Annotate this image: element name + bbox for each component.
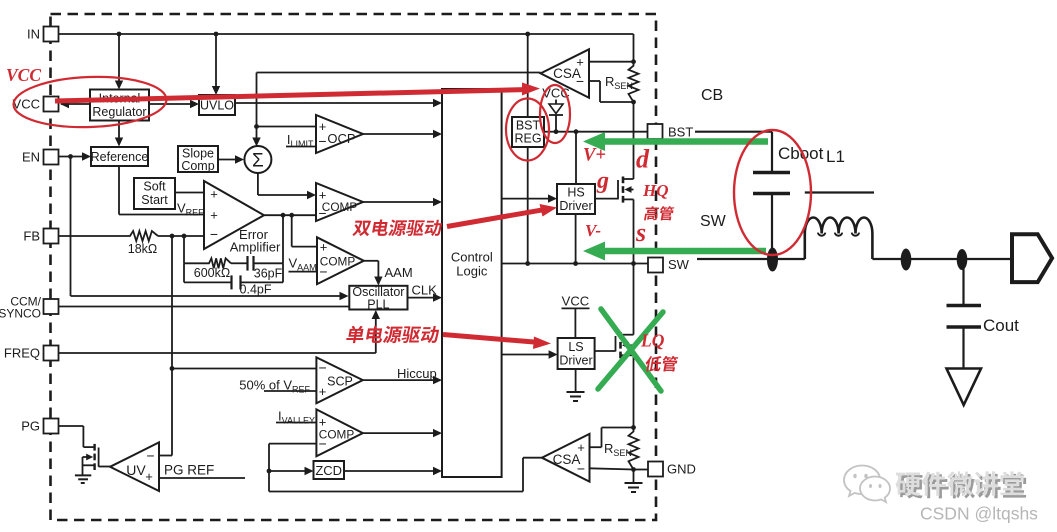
resistor RSEN top sense resistor	[629, 62, 639, 102]
node RSEN bottom resistor bottom	[631, 467, 636, 472]
wire ZCD output to Control Logic with arrow	[344, 470, 440, 472]
svg-text:UV: UV	[126, 462, 146, 478]
svg-text:g: g	[596, 168, 609, 194]
wire EN branch down to Oscillator PLL with arrow	[70, 157, 72, 297]
pin IN	[44, 27, 59, 42]
wire BST REG to diode node	[544, 131, 556, 133]
inductor L1 coil	[805, 217, 873, 259]
resistor RSEN bottom sense resistor	[629, 428, 639, 470]
wire CSA bottom output to ZCD junction	[523, 457, 542, 459]
svg-text:L1: L1	[826, 147, 845, 166]
wire IN to UVLO with arrow	[215, 34, 217, 93]
wire Control Logic to LS Driver with arrow	[502, 354, 556, 356]
svg-text:SW: SW	[668, 257, 690, 272]
node RSEN bottom resistor top	[631, 425, 636, 430]
ground symbol output open triangle	[947, 369, 982, 406]
svg-text:18kΩ: 18kΩ	[128, 242, 158, 256]
svg-text:0.4pF: 0.4pF	[240, 283, 272, 297]
ground symbol below LS driver	[575, 369, 577, 392]
node boot diode to BST line	[554, 129, 559, 134]
svg-text:Regulator: Regulator	[92, 105, 146, 119]
wire Slope Comp to summer with arrow	[218, 159, 242, 161]
block Reference	[91, 147, 148, 166]
wire Cboot bottom to SW node	[771, 194, 773, 253]
wire COMP output to Control Logic with arrow	[363, 201, 440, 203]
op-amp COMP AAM comparator	[317, 237, 364, 284]
wire valley COMP minus from CSA	[269, 443, 316, 445]
block Control Logic	[442, 89, 502, 477]
svg-text:CSDN @ltqshs: CSDN @ltqshs	[920, 504, 1038, 524]
wire V+ into HS driver top	[575, 132, 577, 184]
svg-text:V-: V-	[585, 221, 601, 240]
wire LQ drain up to SW rail	[633, 264, 635, 335]
pin FB	[44, 229, 59, 244]
svg-text:−: −	[577, 461, 585, 477]
diode boot diode	[555, 100, 557, 105]
svg-text:Cboot: Cboot	[778, 144, 824, 163]
capacitor Cout	[947, 304, 982, 308]
ground symbol below RSEN	[633, 470, 635, 484]
svg-text:−: −	[576, 73, 584, 89]
svg-text:+: +	[576, 55, 584, 70]
wire CCM/SYNCO pin to Oscillator PLL	[59, 306, 350, 308]
wire Internal Regulator to VCC pin with arrow	[61, 103, 90, 105]
wire UV output to PG FET gate	[99, 466, 110, 468]
wire 50% of VREF rail into SCP plus	[264, 390, 316, 392]
svg-text:HQ: HQ	[642, 181, 669, 200]
block ZCD	[314, 461, 345, 479]
wire HQ source down to SW rail	[633, 199, 635, 263]
annotation red ellipse around VCC and Internal Regulator	[13, 74, 168, 129]
wire FB pin row with 18k resistor to error amp minus	[59, 235, 128, 237]
svg-text:LS: LS	[568, 340, 583, 354]
wire IVALLEY rail into valley COMP plus	[276, 422, 316, 424]
op-amp OCP comparator	[316, 115, 363, 153]
node SW big junction	[767, 248, 778, 272]
wire CSA plus to RSEN top	[589, 61, 634, 63]
op-amp Error Amplifier	[204, 181, 264, 249]
wire FREQ pin to Oscillator PLL bottom with arrow	[59, 352, 376, 354]
wire PG pin to pull-down FET	[59, 425, 84, 427]
svg-text:Soft: Soft	[143, 180, 166, 194]
annotation red arrow to HS Driver	[447, 210, 543, 227]
annotation red arrow to LS Driver	[443, 335, 537, 343]
svg-text:Cout: Cout	[983, 316, 1019, 335]
wire feedback RC upper branch: 600k + 36pF	[183, 236, 185, 263]
node output junction 2 at Cout	[957, 249, 968, 270]
pin VCC	[44, 97, 59, 112]
op-amp CSA top current sense amplifier	[541, 49, 589, 98]
svg-text:AAM: AAM	[385, 265, 413, 280]
svg-text:+: +	[319, 119, 327, 134]
svg-text:+: +	[319, 384, 327, 399]
wire valley COMP output to Control Logic with arrow	[363, 432, 440, 434]
transistor PG open-drain NMOS	[83, 446, 94, 448]
wire EN pin to Reference with arrow	[59, 156, 90, 158]
wire LS driver gate output	[595, 350, 616, 352]
block HS Driver	[557, 184, 595, 214]
watermark text hardware micro lecture hall	[898, 474, 1026, 499]
svg-text:+: +	[210, 187, 218, 202]
block U-internal-regulator Internal Regulator	[90, 90, 149, 121]
svg-text:SW: SW	[700, 213, 727, 230]
block BST REG	[512, 117, 544, 147]
wire BST REG bottom to SW rail	[527, 147, 529, 264]
svg-text:EN: EN	[22, 150, 40, 165]
pin FREQ	[44, 346, 59, 361]
svg-text:CB: CB	[701, 87, 723, 104]
node on CSA output line to OCP	[254, 124, 259, 129]
svg-text:Start: Start	[141, 193, 168, 207]
op-amp UV power-good comparator	[110, 442, 159, 491]
svg-text:−: −	[146, 448, 154, 464]
ground symbol at PG FET	[75, 474, 91, 476]
svg-text:+: +	[210, 208, 218, 223]
wire Internal Regulator to Reference with arrow	[118, 121, 120, 145]
wire VCC rail to LS driver	[562, 307, 590, 309]
op-amp COMP current comparator	[316, 183, 363, 221]
node RSEN top	[631, 59, 636, 64]
wire SW node to inductor	[773, 258, 805, 260]
wire Cout to ground	[962, 327, 964, 368]
annotation red ellipse around BST REG	[506, 99, 549, 161]
svg-text:GND: GND	[667, 462, 696, 477]
wire LQ source down to RSEN bottom resistor	[633, 355, 635, 427]
wire Internal Regulator to UVLO with arrow	[149, 103, 197, 105]
node error amp output to AAM comp	[289, 213, 294, 218]
node SW rail to power FET leg	[631, 261, 636, 266]
summer sigma circle	[244, 146, 271, 173]
svg-text:d: d	[636, 145, 650, 174]
svg-text:PLL: PLL	[367, 298, 389, 312]
svg-text:36pF: 36pF	[254, 267, 283, 281]
svg-text:VCC: VCC	[6, 65, 41, 85]
svg-text:−: −	[318, 133, 326, 149]
wire CLK from PLL to Control Logic with arrow	[408, 297, 441, 299]
wire SW pin to output node	[697, 258, 768, 260]
wire FB branch to SCP minus	[172, 368, 316, 370]
wire IN rail from IN pin to top-right	[59, 33, 634, 35]
node FB branch to SCP	[170, 366, 175, 371]
wire node to OCP plus input	[257, 126, 317, 128]
svg-text:UVLO: UVLO	[200, 99, 234, 113]
gate plate of PG FET	[98, 448, 100, 467]
svg-text:COMP: COMP	[319, 428, 355, 442]
block Oscillator PLL	[349, 286, 407, 310]
wire Soft Start to error amp	[175, 192, 204, 194]
svg-text:+: +	[145, 469, 153, 484]
annotation green arrow SW	[601, 248, 766, 255]
svg-text:COMP: COMP	[322, 200, 358, 214]
node ZCD input junction	[267, 469, 272, 474]
svg-text:IN: IN	[27, 27, 40, 42]
pin BST	[648, 124, 663, 139]
svg-text:PG REF: PG REF	[164, 463, 214, 478]
node FB to UV comparator	[170, 234, 175, 239]
svg-text:BST: BST	[516, 119, 541, 133]
svg-text:PG: PG	[21, 419, 40, 434]
annotation red thick arrow VCC to CSA supply	[55, 90, 524, 101]
op-amp valley current COMP comparator	[316, 409, 362, 456]
wire UVLO output to Control Logic with arrow	[235, 102, 440, 104]
pin SW	[648, 258, 663, 273]
wire IN to BST REG top	[527, 34, 529, 117]
node error amp output feedback	[281, 213, 286, 218]
wire SCP output Hiccup to Control Logic with arrow	[363, 379, 440, 381]
block Soft Start	[134, 178, 175, 209]
op-amp SCP comparator	[316, 357, 362, 403]
capacitor Cboot	[753, 171, 790, 174]
svg-text:BST: BST	[668, 125, 693, 140]
svg-text:Control: Control	[451, 250, 493, 265]
IC boundary dashed box	[51, 14, 657, 520]
pin EN	[44, 150, 59, 165]
annotation red text single supply drive	[346, 326, 440, 343]
resistor 18k zigzag	[127, 231, 158, 241]
svg-text:Driver: Driver	[559, 199, 592, 213]
svg-text:Amplifier: Amplifier	[230, 240, 281, 255]
wire AAM comparator output to PLL top with arrow	[364, 260, 379, 262]
annotation red text low FET	[644, 356, 678, 372]
wire Reference to VREF rail into error amp	[118, 166, 120, 215]
svg-text:LQ: LQ	[640, 331, 665, 351]
svg-text:V+: V+	[583, 146, 606, 166]
svg-text:−: −	[319, 360, 327, 376]
svg-text:Σ: Σ	[252, 151, 264, 172]
svg-text:OCP: OCP	[327, 131, 355, 146]
svg-text:FREQ: FREQ	[4, 346, 40, 361]
svg-text:ZCD: ZCD	[315, 463, 342, 478]
annotation red text dual supply drive	[352, 219, 443, 236]
svg-text:s: s	[635, 218, 646, 247]
wire Cout top	[962, 260, 964, 305]
svg-text:Comp: Comp	[181, 159, 214, 173]
node BST to HS driver V+	[574, 129, 579, 134]
wire PG REF rail into UV plus	[159, 477, 245, 479]
svg-text:600kΩ: 600kΩ	[194, 266, 230, 280]
annotation red ellipse around VCC diode	[540, 85, 570, 143]
annotation red circle around Cboot	[734, 130, 811, 255]
svg-text:SYNCO: SYNCO	[0, 307, 41, 321]
svg-text:Logic: Logic	[456, 264, 488, 279]
svg-text:COMP: COMP	[320, 255, 356, 269]
pin PG	[44, 419, 59, 434]
pin CCM/SYNCO	[44, 299, 59, 314]
transistor HQ high-side NMOS	[617, 180, 619, 199]
annotation green X over LQ low-side FET	[598, 309, 663, 391]
node RSEN bottom	[631, 100, 636, 105]
node HS driver to SW rail	[573, 261, 578, 266]
node output junction 1	[901, 249, 912, 271]
wire error amp output to COMP minus	[264, 214, 316, 216]
svg-text:Hiccup: Hiccup	[397, 366, 437, 381]
svg-text:+: +	[320, 240, 328, 255]
capacitor 0.4pF plates	[230, 275, 232, 289]
capacitor 36pF plates	[246, 256, 248, 271]
wire BST net to BST pin	[556, 131, 648, 133]
wire Control Logic to HS Driver with arrow	[502, 198, 555, 200]
node on IN rail to internal regulator	[117, 32, 122, 37]
load symbol open arrow pentagon	[1012, 234, 1052, 282]
svg-text:REG: REG	[514, 132, 541, 146]
block LS Driver	[558, 338, 595, 369]
wire error amp output branch down to AAM COMP plus	[291, 215, 293, 246]
wire HS driver Vminus to SW rail	[575, 214, 577, 264]
watermark logo chat bubbles	[844, 466, 890, 503]
svg-text:SCP: SCP	[327, 375, 353, 389]
svg-text:Driver: Driver	[559, 354, 592, 368]
wire VAAM rail into AAM COMP minus	[289, 271, 318, 273]
svg-text:FB: FB	[23, 229, 40, 244]
node on IN rail to UVLO	[214, 32, 219, 37]
pin GND	[648, 462, 663, 477]
node FB to RC feedback	[182, 234, 187, 239]
wire FB vertical branch down to UV comparator	[171, 236, 173, 456]
annotation red text high FET	[644, 206, 675, 220]
wire ILIMIT rail into OCP minus	[286, 146, 316, 148]
wire HS driver gate output	[595, 198, 618, 200]
transistor LQ low-side NMOS	[615, 336, 617, 351]
node on EN wire	[68, 154, 73, 159]
node BST REG to SW rail	[525, 261, 530, 266]
block UVLO	[199, 95, 235, 115]
wire segment above inductor	[805, 191, 874, 193]
wire summer to COMP current comparator plus with arrow	[257, 173, 259, 195]
svg-text:CLK: CLK	[412, 283, 438, 298]
wire feedback 0.4pF lower branch	[183, 263, 185, 282]
op-amp CSA bottom current sense amplifier	[542, 434, 590, 482]
node on IN rail to BST REG	[525, 32, 530, 37]
wire RSEN to GND pin	[634, 469, 649, 471]
svg-text:HS: HS	[567, 186, 584, 200]
svg-text:VCC: VCC	[13, 97, 40, 112]
resistor 600k zigzag	[206, 258, 231, 268]
block Slope Comp	[178, 146, 218, 172]
wire CSA minus to RSEN bottom	[589, 80, 600, 82]
wire into ZCD with arrow	[269, 470, 311, 472]
wire CSA top output to summer	[257, 72, 541, 74]
svg-text:VCC: VCC	[562, 294, 589, 309]
wire RSEN bottom to HQ drain	[633, 102, 635, 179]
svg-text:−: −	[210, 226, 218, 242]
wire OCP output to Control Logic with arrow	[363, 133, 440, 135]
svg-text:+: +	[577, 440, 585, 455]
wire inductor to output	[872, 258, 1010, 260]
wire IN to Internal Regulator with arrow	[118, 34, 120, 88]
wire CSA bottom plus input	[590, 446, 602, 448]
annotation green arrow BST to Cboot	[601, 138, 768, 145]
svg-text:Reference: Reference	[91, 150, 149, 164]
wire SW rail inside IC	[502, 263, 648, 265]
wire CSA bottom minus input	[590, 468, 634, 469]
wire BST pin to Cboot	[695, 131, 772, 133]
